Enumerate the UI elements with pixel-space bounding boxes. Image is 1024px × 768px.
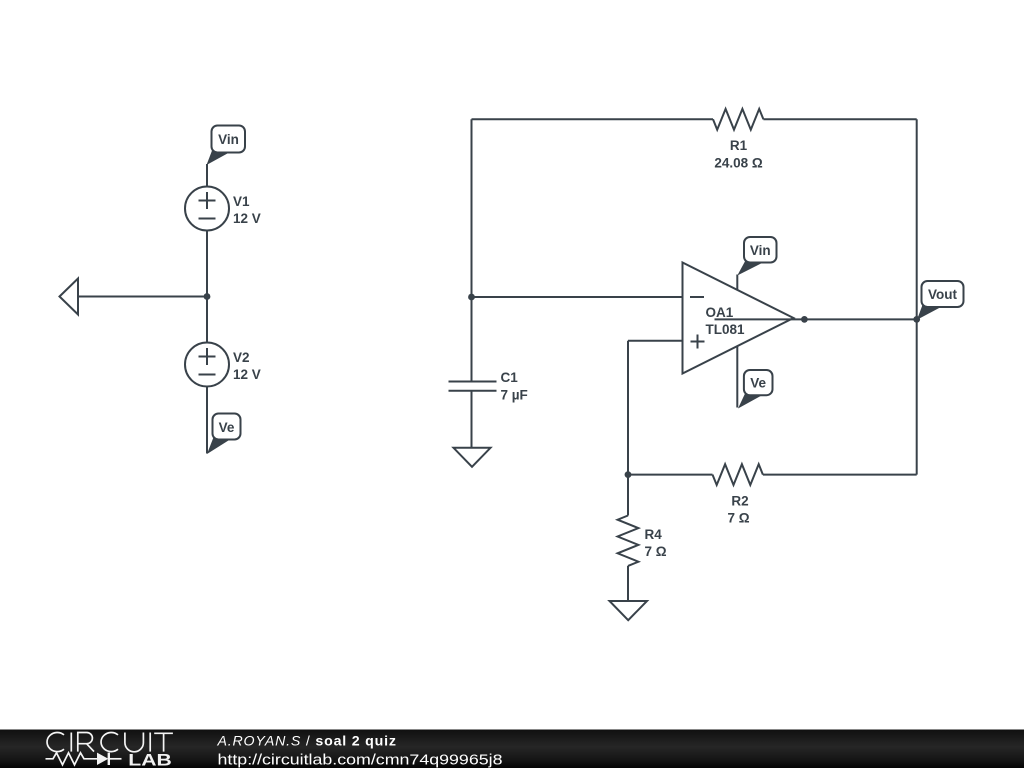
svg-text:Vin: Vin	[218, 132, 239, 147]
wire: left vertical rail (top to C1)	[471, 119, 473, 381]
svg-text:TL081: TL081	[706, 322, 746, 337]
net flag Ve (left source bottom)	[207, 414, 241, 455]
resistor R1	[713, 109, 763, 130]
svg-text:A.ROYAN.S / soal 2 quiz: A.ROYAN.S / soal 2 quiz	[217, 734, 397, 750]
svg-text:R4: R4	[645, 527, 663, 542]
voltage source V1	[185, 187, 229, 231]
label R2 7 Ω	[727, 494, 749, 526]
svg-text:7 Ω: 7 Ω	[727, 511, 749, 526]
pointer arrow (left)	[60, 279, 79, 315]
wire: top right segment (R1 to right rail)	[763, 118, 916, 120]
label OA1 TL081	[706, 305, 746, 337]
resistor R2	[713, 464, 763, 485]
label R4 7 Ω	[645, 527, 667, 559]
voltage source V2	[185, 343, 229, 387]
svg-text:C1: C1	[501, 370, 519, 385]
label C1 7 µF	[501, 370, 528, 403]
net flag Vin (op-amp V+ supply)	[737, 237, 776, 276]
svg-text:R2: R2	[731, 494, 748, 509]
wire: R2 to right rail	[763, 474, 917, 476]
svg-text:V2: V2	[233, 350, 250, 365]
wire: V1 to left node	[206, 231, 208, 297]
svg-text:V1: V1	[233, 194, 250, 209]
node: feedback junction	[625, 471, 632, 478]
node: inverting input junction	[468, 294, 475, 301]
svg-text:7 Ω: 7 Ω	[645, 544, 667, 559]
node: left junction	[204, 293, 211, 300]
svg-text:7 µF: 7 µF	[501, 388, 528, 403]
wire: Vin flag to V1	[206, 164, 208, 187]
net flag Vin (left source top)	[207, 126, 246, 166]
CircuitLab logo: resistor-diode glyph	[46, 753, 122, 765]
capacitor C1	[449, 382, 497, 391]
wire: V+ supply stub	[736, 275, 738, 291]
svg-text:OA1: OA1	[706, 305, 734, 320]
wire: junction to op-amp inverting input	[472, 296, 683, 298]
label R1 24.08 Ω	[714, 138, 763, 171]
wire: op-amp output to right rail	[794, 318, 917, 320]
svg-text:LAB: LAB	[128, 752, 172, 768]
label V1 12 V	[233, 194, 261, 226]
svg-text:Vin: Vin	[750, 243, 771, 258]
ground (below R4)	[610, 601, 648, 620]
svg-text:Ve: Ve	[750, 376, 766, 391]
wire: left node to V2	[206, 297, 208, 343]
resistor R4	[618, 516, 639, 566]
wire: non-inverting input horizontal	[628, 340, 683, 342]
label V2 12 V	[233, 350, 261, 382]
wire: junction to R2	[628, 474, 713, 476]
wire: R4 top	[627, 475, 629, 516]
svg-text:http://circuitlab.com/cmn74q99: http://circuitlab.com/cmn74q99965j8	[218, 752, 503, 768]
op-amp OA1	[683, 263, 794, 374]
svg-text:12 V: 12 V	[233, 367, 261, 382]
wire: top left segment (to R1)	[472, 118, 714, 120]
CircuitLab logo: CIRCUIT wordmark	[47, 733, 173, 752]
wire: V2 to Ve flag	[206, 387, 208, 454]
ground (below C1)	[454, 448, 491, 467]
net flag Ve (op-amp V- supply)	[738, 370, 773, 409]
wire: left node to arrow	[78, 296, 207, 298]
svg-text:R1: R1	[730, 138, 748, 153]
svg-text:24.08 Ω: 24.08 Ω	[714, 156, 763, 171]
wire: C1 to ground	[471, 391, 473, 448]
net flag Vout	[917, 281, 964, 320]
node: Vout junction	[913, 316, 920, 323]
wire: non-inverting input vertical	[627, 341, 629, 475]
svg-text:12 V: 12 V	[233, 211, 261, 226]
wire: R4 bottom	[627, 566, 629, 602]
wire: right vertical rail	[916, 119, 918, 474]
wire: V- supply stub	[736, 346, 738, 408]
svg-text:Ve: Ve	[219, 420, 235, 435]
node: output pin	[801, 316, 808, 323]
svg-text:Vout: Vout	[928, 287, 957, 302]
